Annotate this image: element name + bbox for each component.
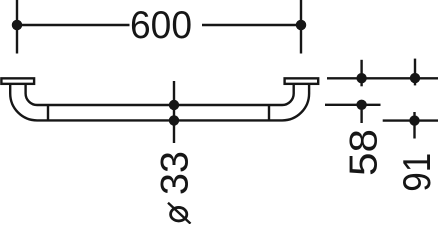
center diameter tick [173, 81, 175, 143]
tick 91 bottom [413, 112, 415, 139]
dim dot tube bottom [169, 115, 179, 125]
joint line left [47, 105, 49, 120]
dim dot 91 bottom [409, 115, 419, 125]
extension line left (600 dim) [16, 0, 18, 54]
dim dot tube top [169, 100, 179, 110]
right flange plate [285, 78, 319, 84]
dimension line 600 left segment [17, 24, 130, 26]
svg-text:33: 33 [154, 151, 197, 195]
dimension line 600 right segment [202, 24, 301, 26]
svg-text:58: 58 [343, 129, 386, 176]
tick 58 top [360, 60, 362, 87]
svg-text:91: 91 [396, 153, 438, 192]
diameter symbol circle [171, 207, 187, 221]
dim dot 91 top [410, 73, 420, 83]
dim dot 600 right [296, 20, 307, 31]
joint line right [268, 105, 270, 120]
left flange plate [1, 78, 34, 84]
reference line flange-top level [327, 77, 438, 79]
tube inner outline [26, 85, 294, 106]
reference line tube-top level [325, 104, 381, 106]
reference line tube-bottom level [383, 119, 438, 121]
extension line right (600 dim) [300, 0, 302, 54]
diameter symbol slash [168, 203, 191, 224]
dim dot 58 bottom [356, 100, 366, 110]
dim dot 600 left [12, 20, 23, 31]
tick 58 bottom [360, 101, 362, 123]
svg-text:600: 600 [130, 4, 192, 47]
dim dot 58 top [356, 73, 366, 83]
tube outer outline [10, 85, 309, 121]
tick 91 top [414, 59, 416, 86]
